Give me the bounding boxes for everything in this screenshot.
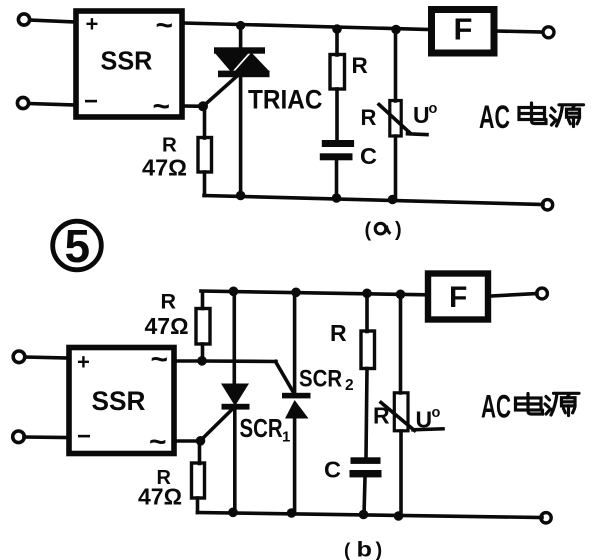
svg-text:5: 5 — [65, 220, 91, 272]
svg-text:~: ~ — [153, 90, 171, 123]
svg-text:): ) — [376, 540, 383, 560]
svg-text:2: 2 — [345, 377, 354, 394]
svg-text:U: U — [416, 407, 433, 433]
svg-text:F: F — [454, 12, 473, 47]
svg-text:): ) — [395, 219, 402, 241]
svg-text:TRIAC: TRIAC — [248, 86, 322, 115]
svg-text:U: U — [413, 102, 430, 128]
svg-text:R: R — [162, 133, 177, 156]
svg-text:R: R — [361, 105, 377, 130]
svg-text:R: R — [352, 53, 368, 78]
svg-text:−: − — [84, 88, 98, 115]
svg-text:~: ~ — [156, 9, 174, 42]
svg-text:o: o — [432, 405, 441, 421]
svg-text:SSR: SSR — [101, 47, 153, 75]
svg-text:b: b — [357, 539, 373, 560]
svg-text:AC: AC — [481, 389, 511, 425]
svg-text:(: ( — [344, 541, 351, 560]
svg-text:C: C — [360, 143, 377, 169]
svg-text:(: ( — [365, 220, 372, 242]
svg-text:1: 1 — [282, 429, 290, 446]
svg-text:+: + — [86, 12, 99, 37]
svg-text:F: F — [449, 281, 467, 314]
svg-text:SCR: SCR — [240, 414, 283, 443]
svg-text:SCR: SCR — [299, 365, 342, 392]
svg-text:R: R — [330, 320, 347, 346]
svg-text:47Ω: 47Ω — [142, 155, 187, 181]
svg-text:SSR: SSR — [92, 386, 146, 416]
svg-text:~: ~ — [151, 343, 169, 376]
svg-text:47Ω: 47Ω — [138, 484, 182, 510]
svg-text:AC: AC — [479, 99, 510, 135]
svg-text:R: R — [161, 289, 177, 313]
svg-text:o: o — [429, 101, 438, 117]
svg-text:−: − — [77, 423, 91, 450]
svg-text:+: + — [77, 350, 90, 375]
svg-text:~: ~ — [149, 426, 167, 459]
svg-text:47Ω: 47Ω — [145, 313, 189, 339]
svg-text:C: C — [324, 456, 341, 482]
svg-text:R: R — [373, 403, 390, 429]
